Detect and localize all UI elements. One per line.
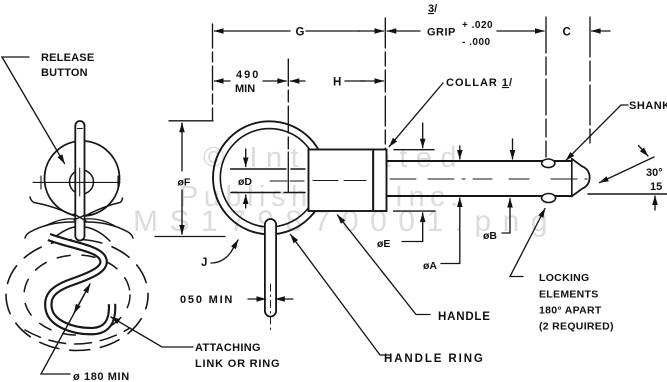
svg-text:- .000: - .000 xyxy=(462,37,491,48)
attaching link leader xyxy=(111,317,193,347)
ring pin slot top line xyxy=(231,168,306,170)
svg-text:490: 490 xyxy=(236,69,260,81)
dim dia F extension bottom xyxy=(155,236,225,238)
ring pin slot bottom line xyxy=(231,192,305,194)
hanging chain link xyxy=(265,219,276,317)
hanging link centerline xyxy=(270,284,272,330)
svg-text:ø 180 MIN: ø 180 MIN xyxy=(73,371,130,382)
30 deg callout xyxy=(600,157,655,183)
svg-text:GRIP: GRIP xyxy=(427,27,456,39)
svg-text:COLLAR 1/: COLLAR 1/ xyxy=(446,77,513,89)
shank bottom line xyxy=(387,195,572,197)
svg-text:30°: 30° xyxy=(646,167,663,179)
dim dia B xyxy=(512,139,514,159)
S-shaped link xyxy=(48,237,112,331)
shank top line xyxy=(387,160,572,162)
dim dia F extension top xyxy=(169,120,213,122)
svg-text:15: 15 xyxy=(650,181,662,193)
svg-text:øE: øE xyxy=(377,238,390,250)
handle ring leader xyxy=(291,235,392,356)
locking ball top xyxy=(542,159,555,168)
chain link wings xyxy=(30,197,75,216)
svg-text:050 MIN: 050 MIN xyxy=(180,294,234,306)
svg-text:J: J xyxy=(201,257,207,269)
svg-text:HANDLE: HANDLE xyxy=(438,311,491,323)
J leader xyxy=(211,240,238,263)
shank tip xyxy=(572,159,590,197)
handle ring outer circle xyxy=(213,121,326,234)
collar right extension xyxy=(384,18,386,149)
button inner cap line xyxy=(77,128,82,130)
15 deg callout xyxy=(588,193,667,195)
svg-text:HANDLE RING: HANDLE RING xyxy=(384,353,485,365)
side-view handle circle xyxy=(45,141,120,216)
handle centerline xyxy=(313,180,366,182)
dim GRIP xyxy=(387,30,420,32)
svg-text:(2 REQUIRED): (2 REQUIRED) xyxy=(539,321,614,333)
dim dia E xyxy=(394,149,434,151)
svg-text:øD: øD xyxy=(238,176,252,188)
svg-text:H: H xyxy=(333,77,341,89)
svg-text:C: C xyxy=(563,27,571,39)
handle leader xyxy=(338,215,431,315)
svg-text:øA: øA xyxy=(423,260,437,272)
side-view hub circle xyxy=(70,170,94,194)
C right extension xyxy=(589,17,591,143)
svg-text:180° APART: 180° APART xyxy=(539,305,602,317)
shank leader xyxy=(566,105,628,160)
svg-text:øF: øF xyxy=(178,177,191,189)
slot edge vertical xyxy=(287,152,289,193)
dia .180 leader xyxy=(41,284,90,374)
svg-text:SHANK: SHANK xyxy=(629,100,667,112)
release button leader xyxy=(2,57,65,164)
attaching ring inner dashed ellipse xyxy=(24,255,130,335)
dim .490 MIN xyxy=(215,80,231,82)
pin centerline xyxy=(270,180,304,182)
svg-text:+ .020: + .020 xyxy=(462,20,493,31)
svg-text:BUTTON: BUTTON xyxy=(41,67,88,79)
collar xyxy=(373,150,386,212)
shank centerline xyxy=(390,178,587,180)
svg-text:ATTACHING: ATTACHING xyxy=(195,342,261,354)
side-view horizontal centerline xyxy=(33,181,120,183)
handle ring inner circle xyxy=(220,129,318,227)
locking ball bottom xyxy=(542,194,556,203)
extension line at slot xyxy=(287,59,289,152)
locking elements leader xyxy=(510,209,545,277)
attaching ring outer dashed ellipse xyxy=(6,240,148,351)
button vertical centerline xyxy=(79,168,81,196)
button horizontal centerline cross xyxy=(73,181,87,183)
attaching ring bottom shadow arc xyxy=(25,328,130,344)
G left extension xyxy=(212,24,214,120)
svg-text:G: G xyxy=(296,27,305,39)
release button shaft xyxy=(75,121,84,241)
svg-text:øB: øB xyxy=(483,230,497,242)
svg-text:RELEASE: RELEASE xyxy=(41,52,94,64)
svg-text:ELEMENTS: ELEMENTS xyxy=(539,289,599,301)
dim H xyxy=(290,80,305,82)
dim dia F line xyxy=(181,124,183,235)
svg-text:LINK OR RING: LINK OR RING xyxy=(195,358,280,370)
G dimension xyxy=(215,30,241,32)
collar leader xyxy=(389,83,443,147)
dim dia A xyxy=(459,146,461,159)
svg-text:3/: 3/ xyxy=(428,3,437,15)
dim dia D xyxy=(245,149,247,167)
grip right extension xyxy=(545,17,547,157)
handle body xyxy=(309,150,374,212)
svg-text:LOCKING: LOCKING xyxy=(539,272,590,284)
svg-text:MIN: MIN xyxy=(235,83,255,95)
